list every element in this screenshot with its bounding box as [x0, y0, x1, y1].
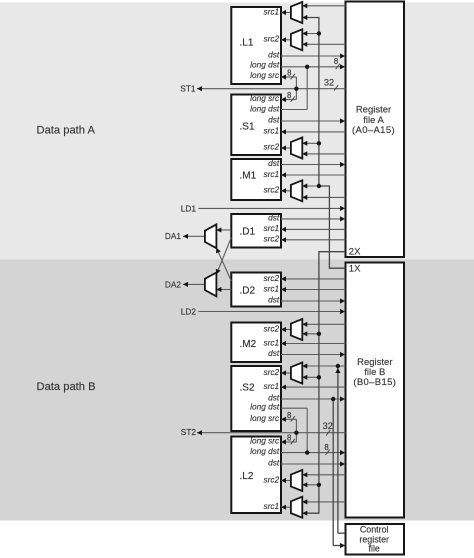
svg-text:src2: src2: [264, 367, 280, 377]
svg-text:.M2: .M2: [240, 339, 257, 350]
svg-text:.D2: .D2: [240, 286, 256, 297]
svg-text:src2: src2: [264, 233, 280, 243]
svg-text:DA1: DA1: [165, 231, 182, 241]
svg-text:long src: long src: [250, 413, 280, 423]
svg-text:32: 32: [323, 421, 333, 431]
svg-text:DA2: DA2: [165, 279, 182, 289]
svg-text:long src: long src: [250, 436, 280, 446]
svg-text:src1: src1: [264, 283, 280, 293]
svg-text:src2: src2: [264, 185, 280, 195]
svg-text:8: 8: [287, 411, 291, 420]
svg-text:.S1: .S1: [240, 122, 255, 133]
svg-text:ST1: ST1: [180, 84, 196, 94]
svg-text:src2: src2: [264, 323, 280, 333]
svg-text:8: 8: [287, 434, 291, 443]
svg-text:Data path B: Data path B: [37, 381, 96, 393]
svg-text:src1: src1: [264, 501, 280, 511]
svg-text:dst: dst: [268, 295, 280, 305]
svg-text:src1: src1: [264, 337, 280, 347]
svg-text:.L2: .L2: [240, 471, 254, 482]
svg-text:8: 8: [287, 91, 291, 100]
svg-text:LD2: LD2: [181, 306, 197, 316]
svg-text:2X: 2X: [349, 247, 361, 258]
svg-text:src1: src1: [264, 125, 280, 135]
svg-text:32: 32: [324, 78, 334, 88]
svg-text:dst: dst: [268, 158, 280, 168]
svg-text:8: 8: [287, 69, 291, 78]
svg-text:1X: 1X: [349, 264, 361, 275]
svg-text:long dst: long dst: [250, 104, 280, 114]
svg-text:8: 8: [324, 443, 328, 452]
svg-text:src2: src2: [264, 34, 280, 44]
svg-text:LD1: LD1: [181, 203, 197, 213]
svg-text:ST2: ST2: [181, 427, 197, 437]
svg-text:long dst: long dst: [250, 60, 280, 70]
svg-text:src1: src1: [264, 223, 280, 233]
svg-text:.M1: .M1: [240, 171, 257, 182]
svg-text:dst: dst: [268, 458, 280, 468]
svg-text:dst: dst: [268, 114, 280, 124]
svg-text:src1: src1: [264, 169, 280, 179]
svg-text:long dst: long dst: [250, 446, 280, 456]
svg-text:file: file: [369, 544, 380, 554]
svg-text:(A0–A15): (A0–A15): [352, 125, 395, 136]
svg-text:long src: long src: [250, 93, 280, 103]
svg-text:.S2: .S2: [240, 383, 255, 394]
svg-text:src1: src1: [264, 6, 280, 16]
svg-text:Data path A: Data path A: [37, 124, 96, 136]
svg-text:(B0–B15): (B0–B15): [353, 377, 396, 388]
svg-text:8: 8: [334, 57, 338, 66]
svg-text:long dst: long dst: [250, 402, 280, 412]
svg-text:Control: Control: [360, 525, 389, 535]
svg-text:dst: dst: [268, 212, 280, 222]
svg-text:src2: src2: [264, 273, 280, 283]
svg-text:long src: long src: [250, 70, 280, 80]
svg-text:src2: src2: [264, 474, 280, 484]
svg-text:src1: src1: [264, 381, 280, 391]
svg-text:src2: src2: [264, 141, 280, 151]
svg-text:dst: dst: [268, 49, 280, 59]
svg-text:.D1: .D1: [240, 227, 256, 238]
svg-text:.L1: .L1: [240, 38, 254, 49]
svg-text:dst: dst: [268, 348, 280, 358]
